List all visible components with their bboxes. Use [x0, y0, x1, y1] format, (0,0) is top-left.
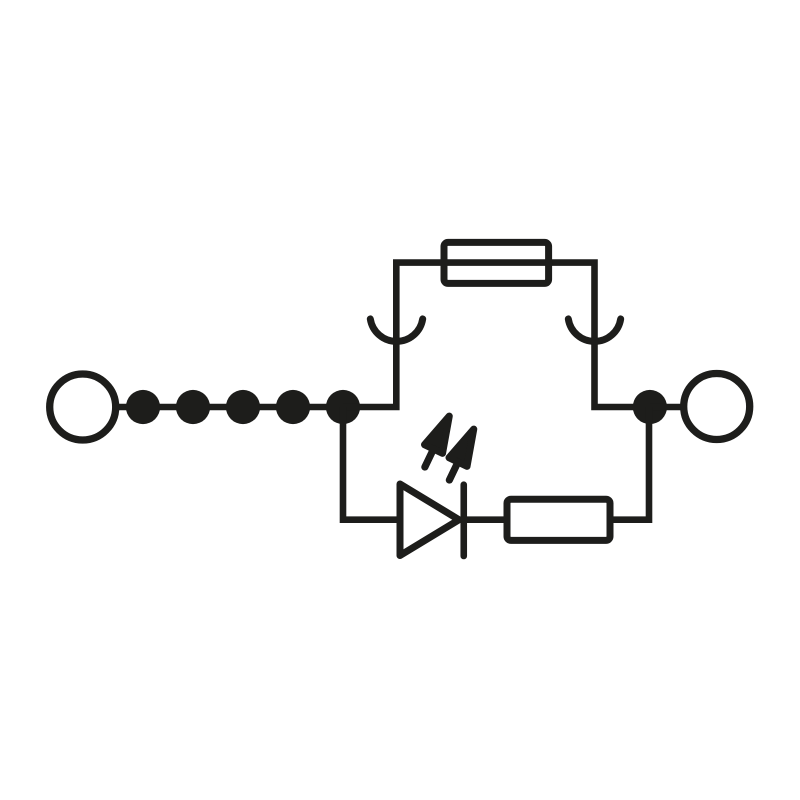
wire fuse loop top: [343, 263, 650, 407]
LED emission arrow 2: [440, 425, 482, 485]
resistor R1: [507, 499, 610, 540]
LED D1 triangle: [400, 484, 459, 556]
junction dot left: [326, 390, 360, 424]
bridge dot 1: [126, 390, 160, 424]
wire bottom branch left: [343, 407, 397, 520]
wire LED to resistor: [466, 516, 507, 523]
left terminal T1: [50, 374, 116, 440]
bridge dot 3: [226, 390, 260, 424]
LED D1 cathode bar: [460, 485, 467, 556]
LED emission arrow 1: [416, 412, 458, 472]
bridge dot 2: [176, 390, 210, 424]
disconnect contact right: [568, 319, 620, 342]
junction dot right: [633, 390, 667, 424]
disconnect contact left: [370, 319, 422, 342]
wire main axis left: [116, 404, 346, 411]
bridge dot 4: [276, 390, 310, 424]
wire to right terminal: [650, 404, 683, 411]
wire resistor to right junction: [610, 407, 649, 520]
fuse F1: [444, 242, 549, 283]
right terminal T2: [684, 374, 750, 440]
